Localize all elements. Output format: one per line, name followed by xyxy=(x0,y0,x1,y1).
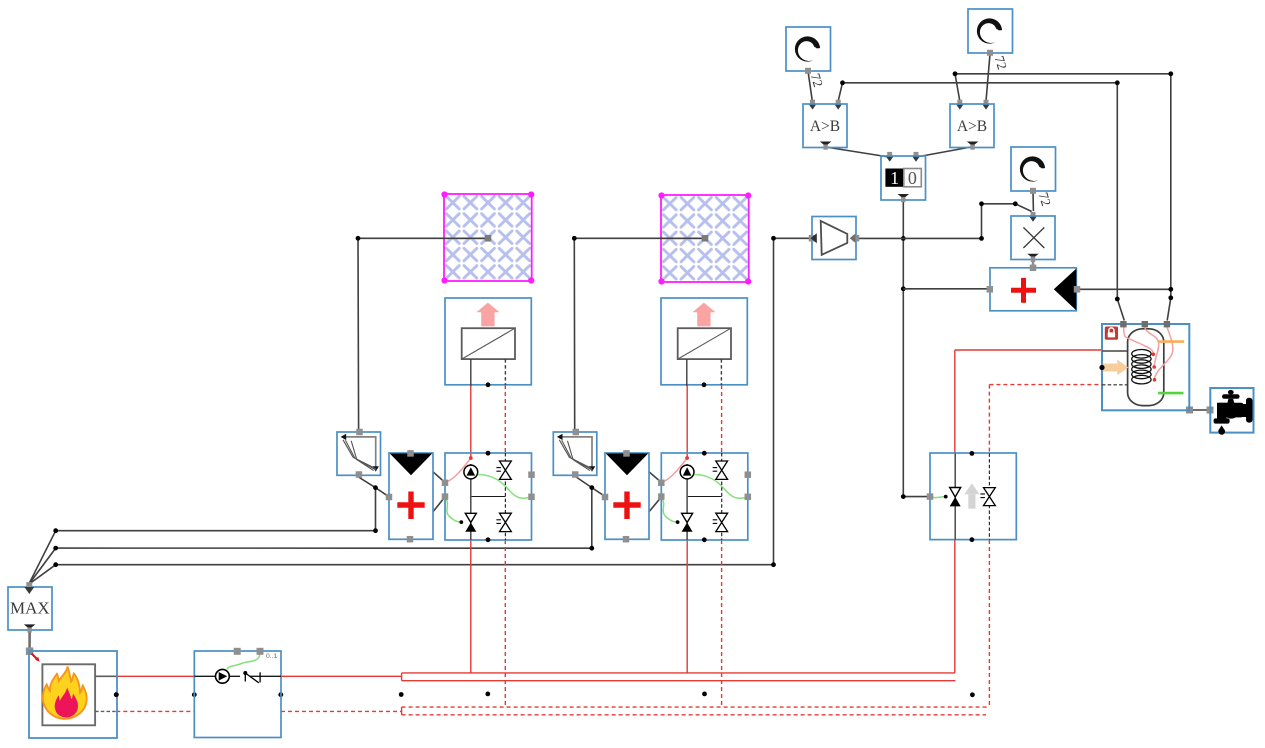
wire switch output to bypass valve block xyxy=(901,200,927,499)
comparator A>B 2 xyxy=(950,104,994,150)
svg-text:1: 1 xyxy=(890,168,899,188)
radiator 1 xyxy=(445,298,531,387)
multiplier X xyxy=(1011,216,1055,262)
pump with on/off switch xyxy=(194,648,281,738)
wire comparator-1 to switch xyxy=(826,147,894,162)
wire zone1 to heating-curve-1 xyxy=(356,236,488,431)
boiler xyxy=(29,651,119,738)
svg-text:MAX: MAX xyxy=(10,599,50,618)
supply riser to hydronics-2 xyxy=(686,386,688,673)
wire multiplier X to plus-3 xyxy=(1032,259,1034,266)
plus-1 mixer xyxy=(386,450,433,542)
return riser from hydronics-1 xyxy=(504,385,506,707)
wire constant C3 to multiplier X xyxy=(1029,190,1054,221)
wire tank sensor to comparator-1 (upper-left bus) xyxy=(834,80,1124,320)
wire constant C2 to comparator-2 xyxy=(982,54,1010,110)
constant C1 (72) xyxy=(786,27,831,74)
svg-text:A>B: A>B xyxy=(957,118,987,135)
tap / DHW draw xyxy=(1210,388,1253,435)
wire tank to tap xyxy=(1186,407,1214,414)
return riser from hydronics-2 xyxy=(721,385,723,707)
hydronics 2 (pump + valves) xyxy=(658,451,751,542)
constant C3 (72) xyxy=(1011,147,1056,194)
svg-text:0: 0 xyxy=(908,168,917,188)
wire buffer to MAX via x=773 xyxy=(30,236,811,584)
return riser from tank via valve block xyxy=(989,385,1102,707)
plus-3 mixer block xyxy=(987,265,1081,311)
thermal zone 2 xyxy=(658,192,751,284)
wire constant C1 to comparator-1 xyxy=(808,71,826,110)
wire zone2 to heating-curve-2 xyxy=(572,236,704,431)
plus-2 mixer xyxy=(602,450,649,542)
MAX block xyxy=(8,582,52,632)
svg-text:A>B: A>B xyxy=(810,118,840,135)
wire plus-1 to hydronics-1 xyxy=(433,472,445,512)
boiler return pipe (red dashed bus) xyxy=(116,707,988,715)
wire heating-curve-1 output to plus-1 and MAX xyxy=(29,477,389,583)
wire plus-2 to hydronics-2 xyxy=(649,472,662,512)
wire heating-curve-2 output to plus-2 and MAX xyxy=(30,476,606,583)
buffer block xyxy=(809,217,860,260)
thermal zone 1 xyxy=(441,191,534,283)
bypass valve block xyxy=(927,451,1017,542)
bottom bus junction dots xyxy=(114,692,975,698)
heating curve 1 xyxy=(337,429,381,478)
heating curve 2 xyxy=(553,429,597,478)
wire buffer to multiplier X xyxy=(857,201,1032,240)
svg-text:0..1: 0..1 xyxy=(266,653,278,660)
supply riser to tank via valve block xyxy=(955,350,1102,673)
wire MAX output to boiler xyxy=(26,630,40,662)
supply riser to hydronics-1 xyxy=(470,386,472,673)
boiler supply pipe (red bus) xyxy=(116,673,955,681)
hydronics 1 (pump + valves) xyxy=(442,451,535,542)
wire switch line to plus-3 input xyxy=(903,288,988,290)
comparator A>B 1 xyxy=(803,104,847,150)
constant C2 (72) xyxy=(968,9,1013,56)
radiator 2 xyxy=(661,298,747,387)
wire comparator-2 to switch xyxy=(912,147,971,162)
wire plus-3 output xyxy=(1079,287,1173,292)
hot water storage tank xyxy=(1099,321,1189,410)
switch block 1/0 xyxy=(881,156,926,202)
wire tank sensor to comparator-2 (upper-right bus) xyxy=(953,71,1174,320)
